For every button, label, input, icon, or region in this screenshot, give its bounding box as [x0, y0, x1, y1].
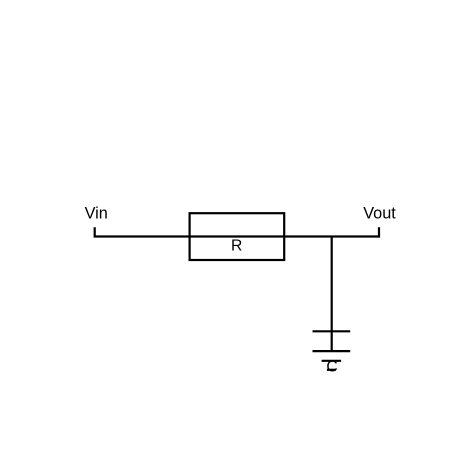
- svg-text:R: R: [231, 238, 242, 255]
- svg-text:Vin: Vin: [85, 204, 108, 222]
- svg-text:Vout: Vout: [363, 204, 396, 222]
- svg-text:C: C: [326, 358, 337, 375]
